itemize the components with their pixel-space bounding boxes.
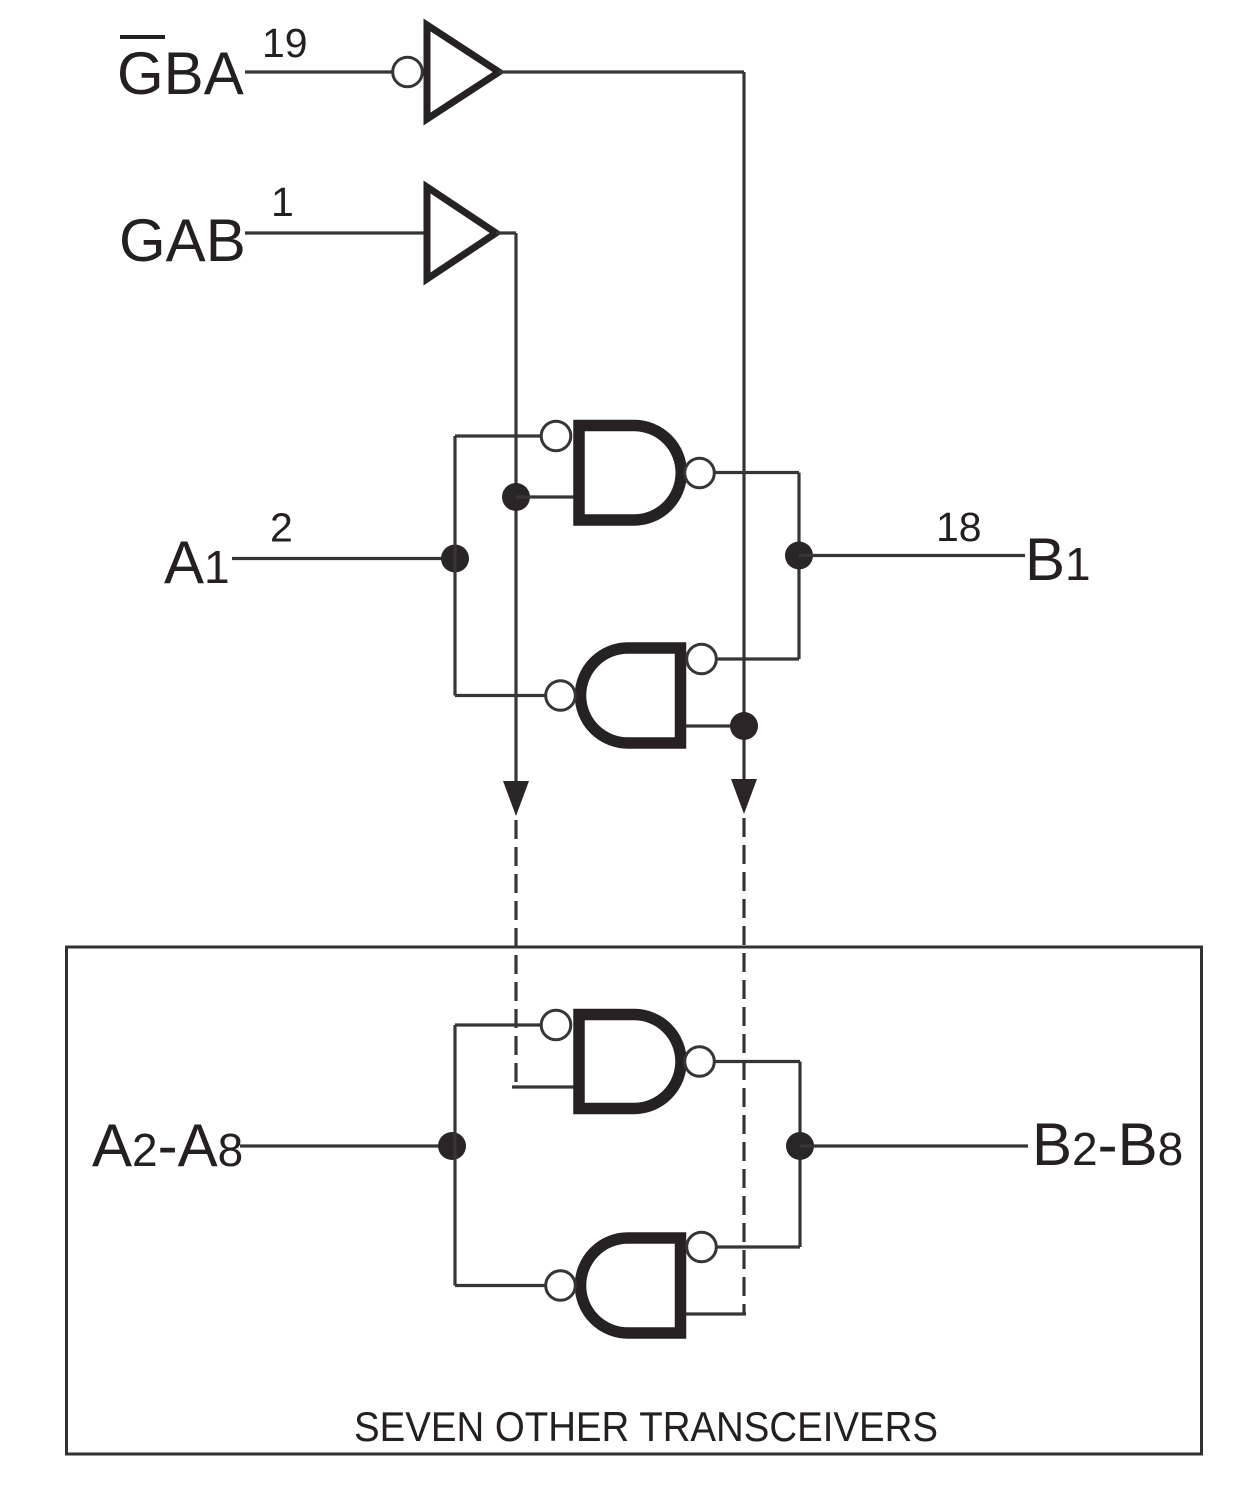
svg-text:GBA: GBA <box>117 40 244 107</box>
gate G2 (B-to-A driver, mirrored AND shape) <box>581 648 681 743</box>
wire A2-A8 to junction <box>240 1144 455 1147</box>
wire G2 output to A bracket <box>455 694 546 697</box>
wire B1 <box>799 554 1025 557</box>
wire G2 enable input to GBA rail <box>686 724 744 727</box>
wire A1 to junction <box>232 557 455 560</box>
bubble G3 output <box>685 1047 715 1077</box>
junction dot A1 <box>441 545 469 573</box>
svg-text:1: 1 <box>271 179 294 225</box>
inverting bubble at GBA buffer input <box>393 57 423 87</box>
svg-text:18: 18 <box>936 504 982 550</box>
wire GAB dashed rail to gate G3 enable input <box>512 1085 578 1088</box>
wire G4 output to lower A bracket <box>455 1284 546 1287</box>
junction dot A2-A8 <box>438 1132 466 1160</box>
buffer U2 GAB enable (triangle) <box>427 187 496 279</box>
wire lower B bracket vertical <box>798 1062 801 1248</box>
box SEVEN OTHER TRANSCEIVERS <box>67 947 1202 1454</box>
wire GBA buffer output horizontal <box>499 70 744 73</box>
svg-text:GAB: GAB <box>119 207 246 274</box>
wire lower A bracket vertical <box>453 1025 456 1286</box>
wire A bracket to gate G1 inverted input <box>455 434 542 437</box>
dashed wire GBA rail continuation <box>742 818 745 1314</box>
bubble G4 inverted input (top right) <box>687 1232 717 1262</box>
arrowhead GBA rail <box>731 779 757 814</box>
junction dot B1 <box>785 542 813 570</box>
wire GAB vertical rail <box>514 233 517 784</box>
wire A-side bracket vertical <box>453 436 456 696</box>
bubble G1 input <box>541 421 571 451</box>
wire B2-B8 <box>800 1144 1028 1147</box>
junction dot GBA rail to G2 <box>730 712 758 740</box>
bubble G4 output (left apex) <box>546 1271 576 1301</box>
svg-text:SEVEN OTHER TRANSCEIVERS: SEVEN OTHER TRANSCEIVERS <box>354 1403 938 1450</box>
buffer U1 GBA enable (triangle) <box>427 25 499 119</box>
wire GBA vertical rail <box>742 72 745 782</box>
wire GBA input <box>245 70 392 73</box>
gate G1 (A-to-B driver, AND shape) <box>579 426 681 521</box>
wire lower A bracket to gate G3 inverted input <box>455 1023 542 1026</box>
bubble G2 inverted input (top right) <box>687 644 717 674</box>
dashed wire GAB rail continuation <box>514 820 517 1087</box>
arrowhead GAB rail <box>503 781 529 816</box>
junction dot B2-B8 <box>786 1132 814 1160</box>
bubble G2 output (left apex) <box>546 681 576 711</box>
wire G3 output to lower B bracket <box>714 1060 800 1063</box>
wire GAB buffer output horizontal <box>496 231 516 234</box>
bubble G3 input <box>541 1010 571 1040</box>
gate G4 (lower B-to-A driver, mirrored) <box>581 1238 681 1333</box>
junction dot GAB rail to G1 <box>502 483 530 511</box>
gate G3 (lower A-to-B driver) <box>579 1015 681 1109</box>
wire GAB input <box>245 231 424 234</box>
svg-text:19: 19 <box>262 20 308 66</box>
overline over G of GBA <box>120 35 165 39</box>
wire G2 inverted input to B bracket <box>716 657 799 660</box>
wire B-side bracket vertical <box>797 473 800 660</box>
wire G4 enable input to GBA dashed rail <box>686 1312 746 1315</box>
wire G4 inverted input to lower B bracket <box>716 1245 800 1248</box>
wire GAB rail to gate G1 enable input <box>516 495 578 498</box>
svg-text:2: 2 <box>270 505 293 551</box>
bubble G1 output <box>685 458 715 488</box>
wire G1 output to B bracket <box>714 471 799 474</box>
